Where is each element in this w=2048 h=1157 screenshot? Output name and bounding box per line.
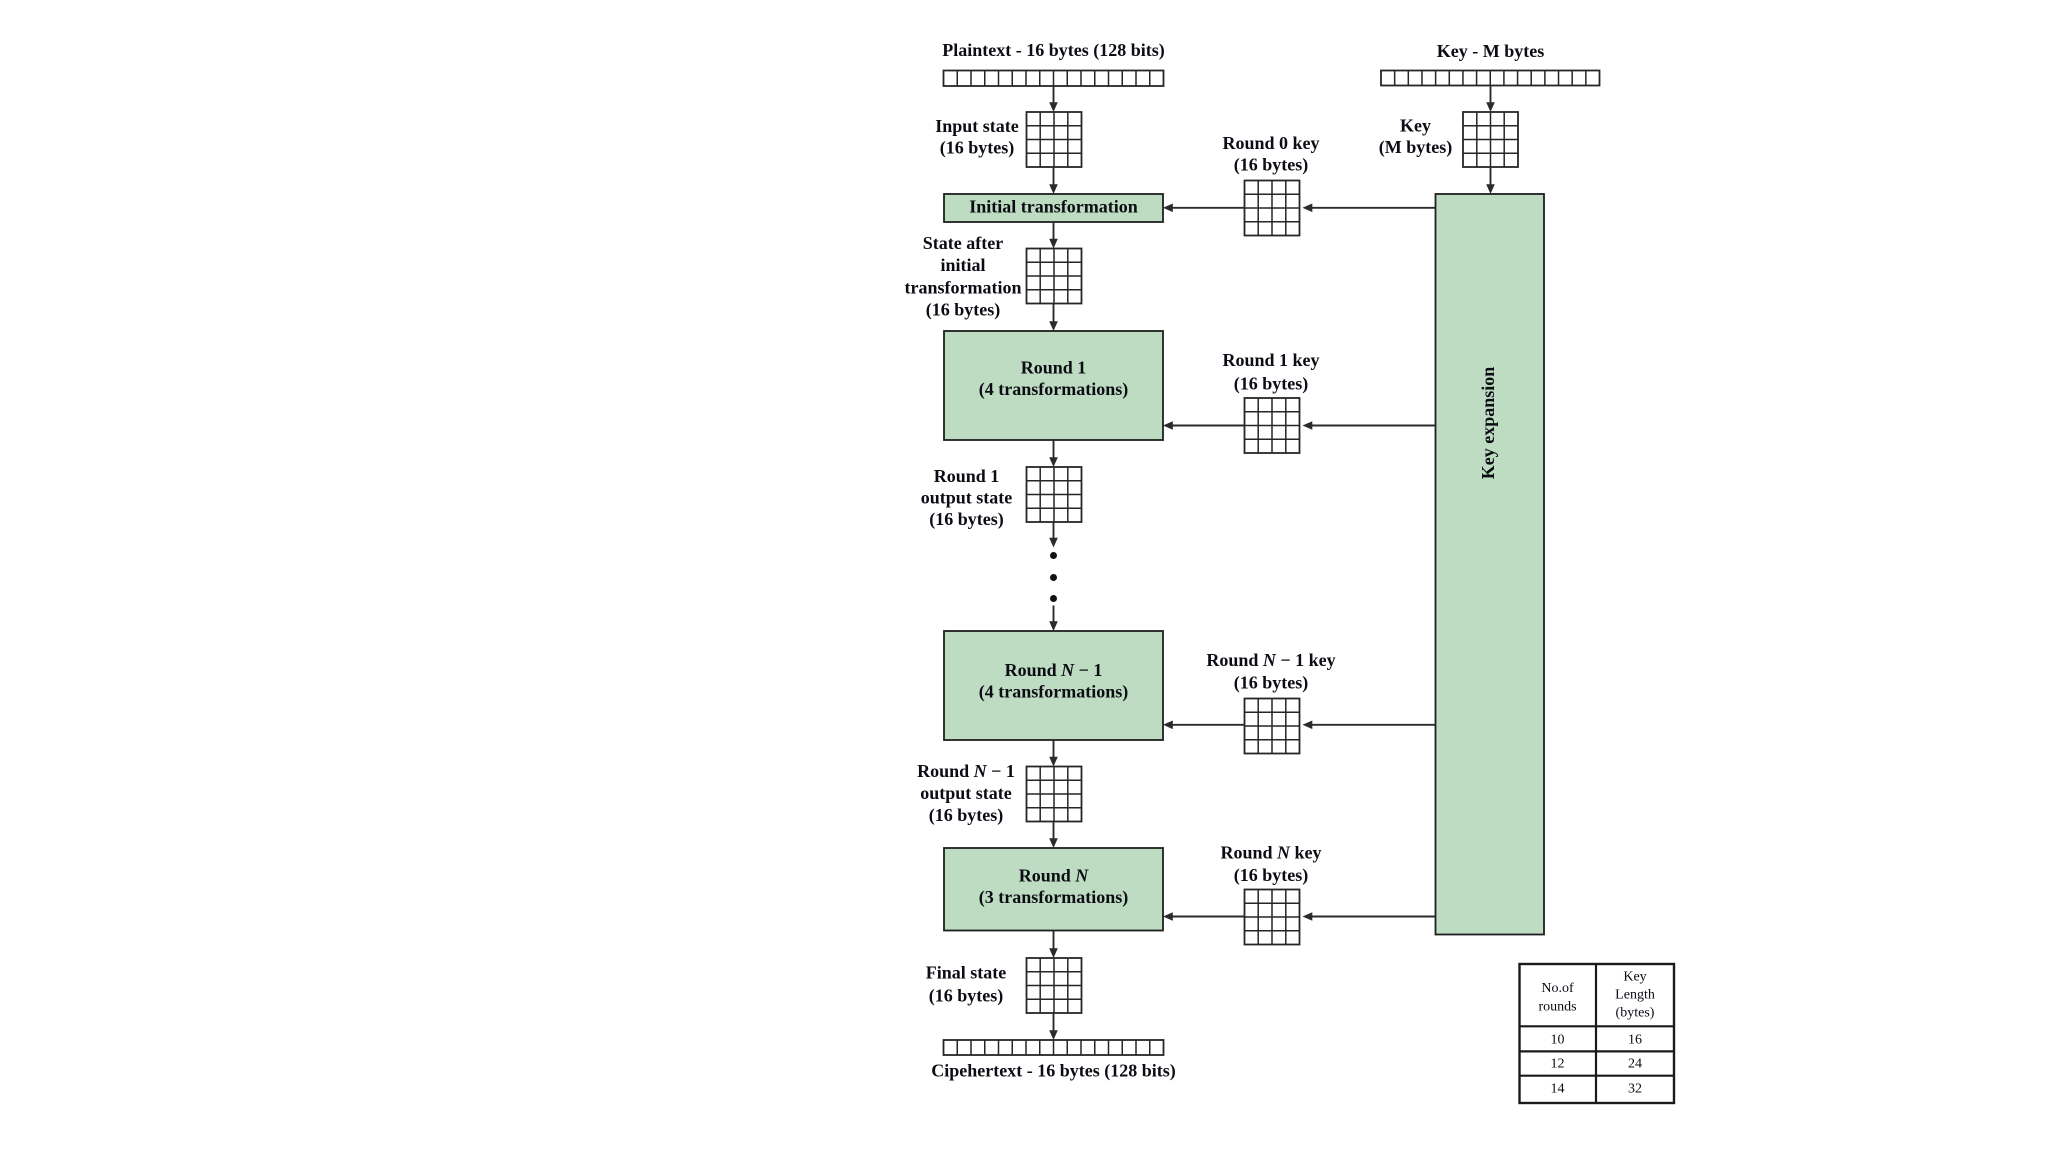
arrow round N-1 output grid to round N box — [1049, 822, 1058, 849]
round 1 key label — [1222, 350, 1319, 395]
svg-text:No.of: No.of — [1541, 981, 1574, 996]
svg-text:(bytes): (bytes) — [1616, 1006, 1655, 1021]
svg-text:(4 transformations): (4 transformations) — [979, 379, 1128, 400]
svg-text:24: 24 — [1628, 1057, 1642, 1072]
svg-text:(16 bytes): (16 bytes) — [929, 986, 1004, 1007]
svg-text:(16 bytes): (16 bytes) — [1234, 673, 1309, 694]
round 0 key label — [1222, 133, 1319, 176]
svg-text:initial: initial — [940, 255, 985, 275]
round N box — [944, 848, 1163, 931]
svg-text:Key - M bytes: Key - M bytes — [1437, 41, 1544, 61]
svg-text:Round N: Round N — [1019, 866, 1090, 886]
arrow key strip to key grid — [1486, 86, 1495, 113]
key byte strip — [1381, 71, 1600, 86]
arrow final state grid to ciphertext strip — [1049, 1013, 1058, 1040]
round 1 box — [944, 331, 1163, 440]
svg-text:32: 32 — [1628, 1082, 1642, 1097]
round N-1 output state label — [917, 761, 1015, 826]
svg-text:(16 bytes): (16 bytes) — [926, 300, 1001, 321]
state after initial transformation label — [905, 233, 1022, 321]
round 1 box label — [979, 358, 1128, 401]
arrow plaintext strip to input state grid — [1049, 86, 1058, 112]
round N-1 output state grid — [1027, 767, 1082, 822]
svg-text:Round 1: Round 1 — [934, 466, 1000, 486]
svg-text:Length: Length — [1615, 988, 1655, 1003]
svg-text:output state: output state — [920, 783, 1012, 803]
ciphertext label — [931, 1061, 1175, 1082]
svg-text:Plaintext - 16 bytes (128 bits: Plaintext - 16 bytes (128 bits) — [942, 40, 1164, 61]
round 0 key grid — [1245, 181, 1300, 236]
ellipsis dots between rounds — [1050, 552, 1057, 602]
round 1 output state grid — [1027, 467, 1082, 522]
arrow key expansion to round 1 key grid — [1303, 421, 1436, 430]
key expansion box — [1436, 194, 1545, 935]
svg-text:State after: State after — [923, 233, 1003, 253]
key grid label — [1379, 116, 1452, 159]
input state label — [935, 116, 1019, 159]
initial transformation box label — [969, 197, 1138, 217]
svg-text:(16 bytes): (16 bytes) — [1234, 374, 1309, 395]
svg-text:Round N − 1: Round N − 1 — [1005, 660, 1103, 680]
arrow round N box to final state grid — [1049, 931, 1058, 959]
state after initial transformation grid — [1027, 249, 1082, 304]
table header: Key Length (bytes) — [1615, 970, 1655, 1021]
round N key label — [1220, 843, 1321, 887]
svg-text:12: 12 — [1551, 1057, 1565, 1072]
arrow input state to initial transformation — [1049, 167, 1058, 194]
round N-1 box label — [979, 660, 1128, 703]
round N box label — [979, 866, 1128, 909]
final state grid — [1027, 958, 1082, 1013]
final state label — [926, 963, 1007, 1007]
arrow key expansion to round N-1 key grid — [1303, 721, 1436, 730]
svg-text:Key expansion: Key expansion — [1478, 367, 1498, 480]
arrow ellipsis to round N-1 box — [1049, 606, 1058, 632]
svg-text:(16 bytes): (16 bytes) — [1234, 155, 1309, 176]
round 1 key grid — [1245, 398, 1300, 453]
svg-text:14: 14 — [1551, 1082, 1565, 1097]
svg-text:(16 bytes): (16 bytes) — [929, 805, 1004, 826]
arrow round N key grid to round N box — [1163, 912, 1245, 921]
svg-text:Round 0 key: Round 0 key — [1222, 133, 1319, 153]
svg-text:Round N − 1 key: Round N − 1 key — [1206, 650, 1335, 670]
plaintext label — [942, 40, 1164, 61]
svg-text:output state: output state — [921, 488, 1013, 508]
svg-text:Key: Key — [1623, 970, 1646, 985]
input state grid — [1027, 112, 1082, 167]
initial transformation box — [944, 194, 1163, 222]
table data rows — [1551, 1032, 1643, 1096]
table header: No.of rounds — [1538, 981, 1576, 1015]
plaintext byte strip — [944, 71, 1164, 87]
arrow key grid to key expansion box — [1486, 167, 1495, 194]
svg-text:Round 1 key: Round 1 key — [1222, 350, 1319, 370]
svg-text:transformation: transformation — [905, 278, 1022, 298]
arrow initial transformation to state-after grid — [1049, 222, 1058, 249]
round N-1 key grid — [1245, 699, 1300, 754]
svg-text:(16 bytes): (16 bytes) — [1234, 865, 1309, 886]
round N key grid — [1245, 890, 1300, 945]
svg-text:(3 transformations): (3 transformations) — [979, 887, 1128, 908]
svg-text:Round N key: Round N key — [1220, 843, 1321, 863]
arrow round 0 key grid to initial transformation box — [1163, 204, 1245, 213]
arrow round N-1 box to round N-1 output grid — [1049, 740, 1058, 767]
svg-text:Input state: Input state — [935, 116, 1019, 136]
svg-text:Round 1: Round 1 — [1021, 358, 1087, 378]
svg-text:Initial transformation: Initial transformation — [969, 197, 1138, 217]
arrow key expansion to round N key grid — [1303, 912, 1436, 921]
svg-text:rounds: rounds — [1538, 1000, 1576, 1015]
svg-text:Key: Key — [1400, 116, 1431, 136]
svg-text:Cipehertext - 16 bytes (128 bi: Cipehertext - 16 bytes (128 bits) — [931, 1061, 1175, 1082]
svg-text:(M bytes): (M bytes) — [1379, 137, 1452, 158]
svg-text:Round N − 1: Round N − 1 — [917, 761, 1015, 781]
arrow round 1 box to round 1 output grid — [1049, 440, 1058, 467]
svg-text:10: 10 — [1551, 1032, 1565, 1047]
svg-text:16: 16 — [1628, 1032, 1642, 1047]
arrow state-after grid to round 1 box — [1049, 304, 1058, 332]
key grid — [1463, 112, 1518, 167]
key label top — [1437, 41, 1544, 61]
arrow round N-1 key grid to round N-1 box — [1163, 721, 1245, 730]
arrow round 1 key grid to round 1 box — [1163, 421, 1245, 430]
arrow round 1 output grid to ellipsis — [1049, 522, 1058, 548]
round 1 output state label — [921, 466, 1013, 530]
round N-1 box — [944, 631, 1163, 740]
svg-text:Final state: Final state — [926, 963, 1007, 983]
ciphertext byte strip — [944, 1040, 1164, 1055]
round N-1 key label — [1206, 650, 1335, 694]
svg-text:(4 transformations): (4 transformations) — [979, 682, 1128, 703]
arrow key expansion to round 0 key grid — [1303, 204, 1436, 213]
svg-text:(16 bytes): (16 bytes) — [929, 509, 1004, 530]
svg-text:(16 bytes): (16 bytes) — [940, 138, 1015, 159]
rounds/key-length table — [1520, 964, 1675, 1103]
